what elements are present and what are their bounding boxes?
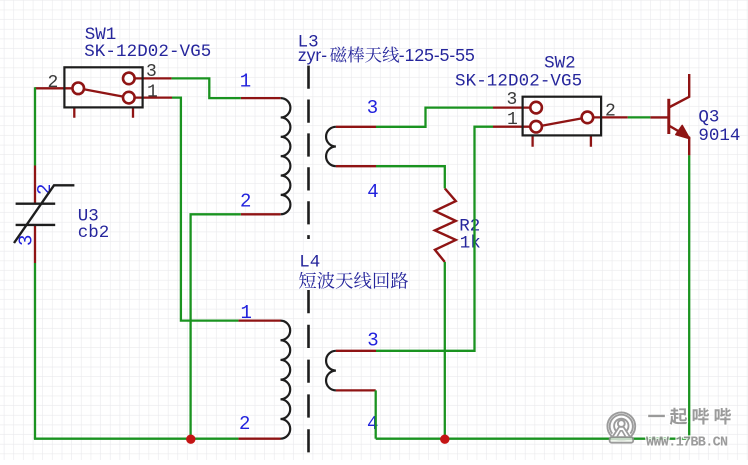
switch SW2 lever xyxy=(542,118,582,125)
svg-text:SK-12D02-VG5: SK-12D02-VG5 xyxy=(84,42,211,62)
svg-text:1: 1 xyxy=(240,71,251,93)
inductor L4 pin 1 lead xyxy=(238,319,280,321)
switch SW1 body rectangle xyxy=(64,67,142,107)
inductor L3 pin 1 lead xyxy=(241,97,281,99)
svg-text:-125-5-55: -125-5-55 xyxy=(399,45,475,65)
inductor L4 pin 4 lead xyxy=(336,389,376,391)
inductor L4 primary winding xyxy=(281,321,291,439)
watermark text 一起哔哔 xyxy=(648,415,665,417)
wire SW1 pin2 to U3 top xyxy=(34,87,36,165)
transistor Q3 emitter arrow xyxy=(676,125,690,138)
switch SW2 unused bottom stubs xyxy=(533,135,591,146)
svg-text:1: 1 xyxy=(147,83,158,103)
label L3 value zyr-磁棒天线-125-5-55 xyxy=(298,45,475,65)
wire L3 pin4 to R2 top xyxy=(376,166,445,188)
switch SW2 pin 2 lead xyxy=(593,116,628,118)
capacitor U3 pin 2 lead xyxy=(34,166,36,204)
watermark tower base xyxy=(610,437,634,443)
switch SW1 lever xyxy=(84,89,123,96)
switch SW2 pin 1 lead xyxy=(493,126,531,128)
resistor R2 xyxy=(435,188,456,262)
svg-text:L4: L4 xyxy=(299,253,320,273)
svg-text:3: 3 xyxy=(367,97,378,119)
wire L3 pin2 down to bus xyxy=(191,214,241,438)
wire R2 bottom to bus xyxy=(444,262,446,439)
svg-text:3: 3 xyxy=(367,330,378,352)
capacitor U3 top plate xyxy=(16,202,56,204)
junction dot at R2 bottom / bus xyxy=(440,435,449,444)
switch SW1 contact circle pin3 xyxy=(123,73,135,85)
svg-text:9014: 9014 xyxy=(698,126,740,146)
switch SW1 pin 3 lead xyxy=(135,77,172,79)
capacitor U3 adjustment arrow xyxy=(14,185,74,243)
svg-text:WWW.17BB.CN: WWW.17BB.CN xyxy=(646,436,728,451)
svg-text:SK-12D02-VG5: SK-12D02-VG5 xyxy=(455,71,582,91)
svg-text:zyr-: zyr- xyxy=(298,45,327,65)
switch SW1 pin 2 lead xyxy=(35,87,72,89)
wire bottom bus right segment xyxy=(376,438,690,440)
switch SW2 pin 3 lead xyxy=(493,106,531,108)
wire Q3 emitter to bus xyxy=(688,155,690,439)
inductor L4 pin 2 lead xyxy=(238,438,280,440)
wire bottom bus left segment xyxy=(34,438,239,440)
wire SW2 pin1 to L4 pin3 xyxy=(376,127,493,351)
transistor Q3 collector xyxy=(669,74,689,108)
wire SW1 pin1 to L4 pin1 xyxy=(172,98,238,321)
svg-text:1k: 1k xyxy=(460,234,481,254)
capacitor U3 bottom plate xyxy=(16,224,56,226)
switch SW2 contact circle pin1 xyxy=(530,121,542,133)
inductor L3 pin 3 lead xyxy=(336,126,376,128)
wire L3 pin3 to SW2 pin3 xyxy=(376,108,493,127)
svg-text:cb2: cb2 xyxy=(78,223,110,243)
transformer L4 core (dashed) xyxy=(307,290,310,452)
switch SW1 contact circle pin1 xyxy=(123,92,135,104)
svg-text:4: 4 xyxy=(367,181,378,203)
switch SW2 contact circle pin3 xyxy=(530,102,542,114)
wire U3 bottom to ground bus xyxy=(34,263,36,439)
switch SW1 pin 1 lead xyxy=(135,96,172,98)
transistor Q3 emitter xyxy=(669,126,689,156)
svg-text:Q3: Q3 xyxy=(698,108,719,128)
wire SW1 pin3 to L3 pin1 xyxy=(172,78,241,98)
svg-text:2: 2 xyxy=(48,73,59,93)
inductor L3 pin 2 lead xyxy=(241,213,281,215)
transformer L3 core (dashed) xyxy=(307,66,310,239)
watermark tower triangle xyxy=(611,427,631,439)
inductor L3 secondary winding xyxy=(326,127,336,166)
svg-text:2: 2 xyxy=(240,191,251,213)
switch SW2 body rectangle xyxy=(523,97,602,136)
inductor L3 pin 4 lead xyxy=(336,165,376,167)
switch SW2 contact circle pin2 xyxy=(582,112,594,124)
inductor L4 pin 3 lead xyxy=(336,350,376,352)
inductor L3 primary winding xyxy=(281,98,291,214)
wire L4 pin4 down to bus xyxy=(375,390,377,438)
capacitor U3 pin 3 lead xyxy=(34,226,36,263)
transistor Q3 base bar xyxy=(667,99,670,134)
switch SW1 unused bottom stubs xyxy=(74,107,133,117)
inductor L4 secondary winding xyxy=(326,351,336,391)
svg-text:2: 2 xyxy=(239,413,250,435)
junction dot at L3 pin2 / bus xyxy=(186,435,195,444)
watermark radio-tower icon xyxy=(607,412,635,440)
transistor Q3 base lead xyxy=(650,116,669,118)
wire SW2 pin2 to Q3 base xyxy=(628,116,651,118)
switch SW1 contact circle pin2 xyxy=(72,83,84,95)
label L4 value 短波天线回路 xyxy=(299,272,316,289)
